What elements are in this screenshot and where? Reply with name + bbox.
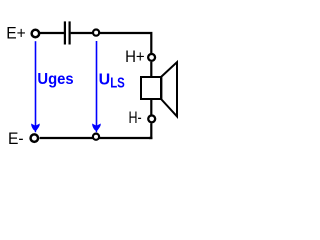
speaker body xyxy=(141,77,161,99)
svg-text:E-: E- xyxy=(8,129,24,148)
arrow ULS shaft xyxy=(96,41,98,131)
svg-text:Uges: Uges xyxy=(37,71,73,88)
svg-text:LS: LS xyxy=(110,75,125,92)
wire E+ to capacitor xyxy=(40,32,64,34)
wire node to right corner xyxy=(100,33,152,53)
wire H+ to speaker xyxy=(150,62,152,77)
arrow ULS head xyxy=(92,124,101,133)
terminal E- xyxy=(31,134,39,142)
speaker horn xyxy=(161,62,177,116)
terminal E+ xyxy=(32,30,40,38)
svg-text:H+: H+ xyxy=(125,47,145,66)
node circle top xyxy=(93,29,99,35)
wire capacitor to node xyxy=(71,32,93,34)
svg-text:E+: E+ xyxy=(6,24,26,43)
arrow Uges head xyxy=(31,124,40,133)
capacitor left plate xyxy=(64,21,66,44)
wire H- to bottom corner xyxy=(149,123,151,138)
node circle bottom xyxy=(93,134,99,140)
wire speaker to H- xyxy=(150,99,152,115)
svg-text:H-: H- xyxy=(129,108,142,127)
svg-text:U: U xyxy=(99,72,111,89)
terminal H+ xyxy=(148,54,155,61)
bottom wire left segment xyxy=(40,137,93,139)
capacitor right plate xyxy=(68,21,70,44)
terminal H- xyxy=(148,115,155,122)
arrow Uges shaft xyxy=(35,41,37,130)
bottom wire right segment xyxy=(99,137,152,139)
